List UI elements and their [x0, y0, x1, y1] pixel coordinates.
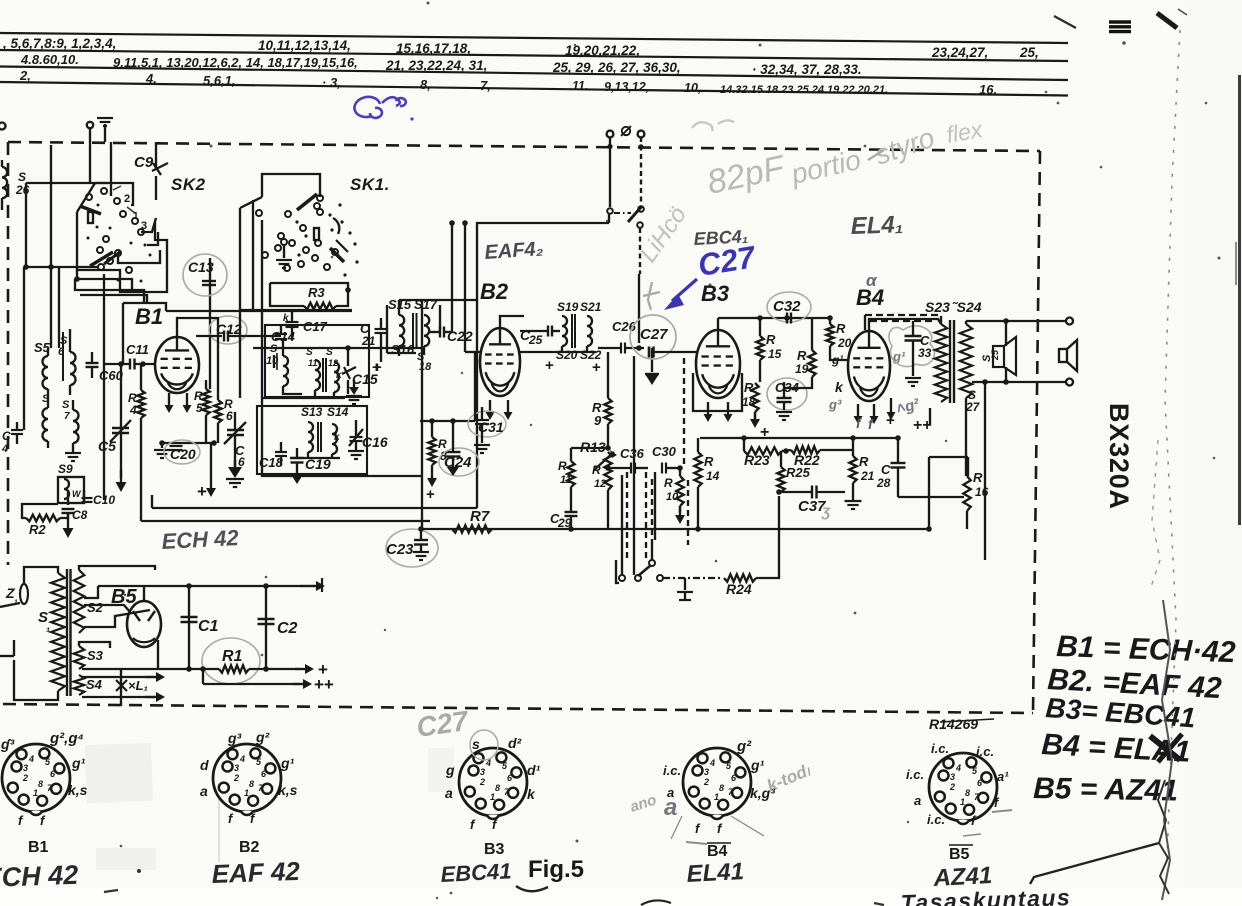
- svg-text:9,13,12,: 9,13,12,: [604, 80, 649, 94]
- svg-text:5: 5: [196, 401, 203, 415]
- svg-text:S14: S14: [327, 405, 349, 419]
- svg-text:20: 20: [837, 336, 852, 350]
- svg-text:15: 15: [768, 347, 782, 361]
- svg-text:15,16,17,18,: 15,16,17,18,: [396, 41, 471, 56]
- ground under C16: [348, 450, 364, 452]
- svg-text:EL4₁: EL4₁: [850, 211, 903, 240]
- svg-text:16.: 16.: [979, 82, 997, 97]
- svg-text:14.32.15.18.23.25.24.19.22.20.: 14.32.15.18.23.25.24.19.22.20.21.: [720, 84, 888, 96]
- svg-text:S13: S13: [301, 405, 323, 419]
- svg-text:g: g: [445, 762, 455, 778]
- svg-text:R: R: [973, 470, 983, 485]
- pencil dash near B5: [992, 810, 1012, 812]
- svg-text:a: a: [914, 793, 921, 808]
- svg-text:4,: 4,: [145, 71, 157, 86]
- svg-text:k: k: [527, 786, 536, 802]
- contact and wiper below SK2: [98, 264, 104, 270]
- svg-text:R25: R25: [786, 465, 811, 480]
- svg-text:i.c.: i.c.: [976, 744, 994, 759]
- svg-text:2: 2: [479, 777, 485, 787]
- wire terminal left down: [609, 137, 611, 207]
- down arrow under C8: [67, 513, 69, 530]
- svg-text:4: 4: [28, 754, 34, 764]
- svg-text:18: 18: [742, 395, 756, 409]
- resistor R16: [963, 476, 970, 511]
- svg-text:8,: 8,: [420, 77, 431, 92]
- crease squiggle lower: [1162, 600, 1172, 900]
- switch SK1 frame: [262, 174, 320, 197]
- svg-text:+: +: [426, 486, 435, 503]
- capacitor C13 with pencil ring: [183, 254, 227, 296]
- wire B5 top: [143, 586, 145, 601]
- svg-text:g³: g³: [227, 730, 242, 746]
- svg-text:27: 27: [965, 400, 981, 414]
- svg-text:1: 1: [714, 792, 719, 802]
- capacitor C10: [82, 497, 93, 499]
- svg-text:i.c.: i.c.: [663, 763, 681, 778]
- svg-text:+: +: [886, 412, 895, 429]
- bus wires lower left: [152, 507, 477, 509]
- svg-text:21, 23,22,24, 31,: 21, 23,22,24, 31,: [385, 58, 487, 73]
- svg-text:S21: S21: [580, 300, 602, 314]
- ground stub under C5: [120, 470, 122, 478]
- capacitor C33 pencil blob: [889, 326, 934, 367]
- svg-text:1: 1: [33, 788, 38, 798]
- svg-text:a: a: [445, 785, 453, 801]
- svg-text:k: k: [336, 370, 342, 381]
- svg-text:C11: C11: [126, 342, 149, 357]
- blue pen squiggle: [354, 97, 405, 118]
- tube B3 box: [693, 373, 742, 411]
- svg-text:3: 3: [950, 772, 955, 782]
- dashed screen box above B4: [865, 314, 939, 316]
- resistor R6: [214, 400, 221, 423]
- svg-text:3: 3: [23, 763, 28, 773]
- output terminal top: [1066, 318, 1073, 325]
- ground under switch wire: [684, 578, 686, 590]
- svg-text:C: C: [881, 462, 891, 477]
- wire taps to B5: [84, 605, 130, 612]
- wire B5 cathode: [157, 640, 159, 669]
- transformer S3: [74, 646, 85, 669]
- wire main coupling: [520, 351, 560, 353]
- wire B2 plate: [500, 316, 524, 328]
- triple bar mark: [1109, 20, 1131, 23]
- svg-text:g²: g²: [255, 729, 270, 745]
- svg-text:1: 1: [960, 797, 965, 807]
- svg-text:C8: C8: [72, 508, 88, 522]
- socket B4: [683, 748, 751, 816]
- svg-text:C20: C20: [170, 446, 196, 462]
- big ground under C6: [234, 460, 236, 469]
- svg-text:R: R: [797, 348, 807, 363]
- svg-text:B2: B2: [480, 279, 509, 304]
- svg-text:25, 29, 26, 27, 36,30,: 25, 29, 26, 27, 36,30,: [552, 60, 681, 75]
- svg-text:R2: R2: [29, 522, 46, 537]
- capacitor C19: [291, 457, 304, 459]
- svg-text:23,24,27,: 23,24,27,: [931, 45, 988, 60]
- svg-text:C10: C10: [93, 493, 115, 507]
- svg-text:EL41: EL41: [686, 858, 745, 888]
- svg-text:S19: S19: [557, 300, 579, 314]
- svg-text:7,: 7,: [480, 78, 491, 93]
- wire R15 junction: [741, 381, 760, 383]
- svg-text:S4: S4: [86, 677, 103, 692]
- top terminals: [607, 131, 614, 138]
- svg-text:i.c.: i.c.: [906, 767, 924, 782]
- table rule 4: [0, 82, 1068, 96]
- svg-text:C: C: [2, 429, 11, 443]
- bottom tone switch: [619, 575, 625, 581]
- coil S26: [2, 167, 7, 198]
- capacitor C1: [188, 586, 190, 669]
- svg-text:++: ++: [314, 675, 334, 694]
- resistor R20: [826, 324, 833, 346]
- lamp L1: [120, 670, 122, 706]
- faint pencil mark top: [692, 120, 734, 131]
- svg-text:+: +: [592, 359, 601, 376]
- transformer S4: [74, 675, 85, 695]
- svg-text:4: 4: [239, 754, 245, 764]
- svg-text:k: k: [283, 313, 289, 324]
- switch blade middle: [614, 212, 631, 214]
- capacitor C2: [265, 586, 267, 669]
- wire secondary bottom: [965, 398, 967, 476]
- bleed-through gray blocks: [85, 743, 153, 803]
- svg-text:d¹: d¹: [527, 762, 541, 778]
- svg-text:4: 4: [1, 443, 8, 455]
- dash-dot to R24: [663, 577, 723, 579]
- coil can box lower: [257, 406, 367, 474]
- svg-text:8: 8: [719, 783, 724, 793]
- heater wires S4: [82, 676, 158, 678]
- tube B5: [127, 601, 161, 647]
- resistor R1 with pencil ring: [202, 638, 260, 684]
- svg-text:+: +: [197, 482, 207, 501]
- svg-text:g¹: g¹: [750, 757, 765, 773]
- capacitor C60: [86, 362, 99, 364]
- svg-text:12: 12: [594, 478, 606, 490]
- svg-text:2: 2: [233, 773, 239, 783]
- socket B5: [929, 753, 997, 821]
- table rule 3: [0, 67, 1068, 81]
- svg-text:s: s: [472, 736, 480, 752]
- svg-text:R: R: [704, 454, 714, 469]
- wire SK2 to C13: [160, 250, 210, 290]
- svg-text:16: 16: [975, 485, 989, 499]
- switch SK1 contacts: [285, 211, 291, 217]
- resistor R2: [26, 515, 60, 522]
- svg-text:S2: S2: [87, 600, 104, 615]
- tube B3: [696, 330, 740, 398]
- svg-text:8: 8: [38, 779, 43, 789]
- pen stroke top right 2: [1157, 13, 1177, 28]
- resistor R8: [428, 437, 435, 465]
- svg-text:d: d: [200, 757, 209, 773]
- dashed enclosure right edge: [1033, 151, 1040, 713]
- capacitor C31: [468, 411, 506, 437]
- ground in SK1: [283, 245, 285, 258]
- shielded lead lower: [639, 228, 641, 274]
- svg-text:a: a: [200, 783, 208, 799]
- socket B2: [213, 744, 281, 812]
- shield dashed box middle: [626, 472, 628, 560]
- svg-text:g³: g³: [828, 397, 842, 412]
- svg-text:B3: B3: [701, 281, 729, 306]
- svg-text:k,s: k,s: [68, 782, 88, 798]
- svg-text:B5: B5: [949, 846, 970, 863]
- svg-text:R24: R24: [726, 581, 752, 597]
- svg-text:ɠ³: ɠ³: [0, 736, 15, 752]
- svg-text:B4: B4: [707, 843, 728, 860]
- resistor R18: [751, 383, 758, 412]
- svg-text:6: 6: [238, 455, 245, 469]
- svg-text:k: k: [334, 432, 340, 443]
- ground arrow under C26/C27 node: [651, 348, 653, 372]
- R2 loop wires: [22, 504, 58, 518]
- switch SK2 outline: [95, 183, 133, 205]
- switch SK2 arm right: [141, 218, 156, 232]
- svg-text:g¹: g¹: [831, 353, 843, 367]
- svg-text:21: 21: [860, 469, 875, 483]
- svg-text:· 3,: · 3,: [322, 75, 341, 90]
- svg-text:R: R: [859, 454, 869, 469]
- staircase wires SK2 to B1: [58, 268, 60, 348]
- main bus y438: [700, 437, 868, 439]
- capacitor C5 variable: [112, 427, 129, 429]
- svg-text:3: 3: [480, 767, 485, 777]
- wire into B2 box: [608, 214, 610, 223]
- svg-text:S: S: [18, 170, 26, 184]
- svg-text:R: R: [836, 321, 846, 336]
- capacitor C16 variable: [350, 436, 363, 438]
- svg-text:4.8.60,10.: 4.8.60,10.: [20, 52, 79, 67]
- wire S2 to top bus: [84, 586, 98, 598]
- paper crease right: [1165, 30, 1180, 860]
- resistor R15: [756, 336, 763, 360]
- svg-text:21: 21: [361, 334, 376, 348]
- ground under C15: [346, 395, 362, 397]
- wire left bus: [26, 182, 108, 184]
- svg-text:8: 8: [495, 783, 500, 793]
- svg-text:3: 3: [141, 220, 147, 232]
- wire B4 grid: [759, 424, 761, 434]
- svg-text:R23: R23: [744, 452, 770, 468]
- svg-text:Fig.5: Fig.5: [528, 856, 584, 883]
- wire B3 plate to top: [717, 318, 719, 330]
- svg-text:2: 2: [22, 773, 28, 783]
- svg-text:2: 2: [124, 193, 130, 205]
- capacitor C37: [811, 486, 813, 499]
- svg-text:B3: B3: [484, 841, 505, 858]
- svg-text:B1: B1: [28, 839, 49, 856]
- svg-text:· 32,34, 37, 28,33.: · 32,34, 37, 28,33.: [752, 62, 862, 77]
- svg-text:10,: 10,: [684, 81, 701, 95]
- IF can box S15-S18: [386, 305, 388, 353]
- svg-text:C36: C36: [620, 446, 645, 461]
- wire SK1 left leads: [252, 200, 254, 310]
- svg-text:˜S24: ˜S24: [952, 299, 982, 315]
- svg-text:BX320A: BX320A: [1104, 403, 1134, 510]
- transformer S2: [74, 570, 85, 633]
- svg-text:33: 33: [918, 346, 932, 360]
- svg-text:ECH 42: ECH 42: [161, 525, 240, 554]
- svg-text:C30: C30: [652, 444, 677, 459]
- pencil dash: [868, 150, 884, 160]
- B2 stage box: [477, 223, 609, 508]
- svg-text:19,20,21,22,: 19,20,21,22,: [565, 43, 640, 58]
- svg-text:S9: S9: [58, 462, 73, 476]
- switch SK2 wipers: [80, 206, 101, 214]
- wires around coil block: [240, 309, 352, 311]
- resistor R22: [791, 446, 820, 453]
- svg-text:R: R: [744, 380, 754, 395]
- resistor R7 on bus: [422, 528, 929, 530]
- svg-text:C17: C17: [303, 319, 328, 334]
- wire top bus drop: [100, 566, 155, 570]
- speaker icon right: [1059, 349, 1067, 362]
- svg-text:10,11,12,13,14,: 10,11,12,13,14,: [258, 38, 351, 53]
- svg-text:8: 8: [965, 788, 970, 798]
- wire B2 down: [474, 352, 476, 421]
- svg-text:11.: 11.: [572, 79, 588, 93]
- output wire lower: [972, 381, 1066, 383]
- resistor R3 box: [269, 283, 271, 295]
- switch SK1 curve: [333, 218, 339, 234]
- ground under S7: [72, 448, 74, 452]
- svg-text:B1 = ECH·42: B1 = ECH·42: [1056, 630, 1237, 669]
- wire R24 to right: [756, 496, 779, 578]
- svg-text:S: S: [62, 399, 70, 411]
- svg-text:C27: C27: [640, 326, 668, 343]
- shield dashes right of C30: [683, 358, 685, 468]
- svg-text:R: R: [766, 332, 776, 347]
- svg-text:25,: 25,: [1019, 45, 1039, 60]
- capacitor C23 with pencil ring: [386, 529, 438, 567]
- svg-text:S23: S23: [925, 299, 950, 315]
- svg-text:25: 25: [990, 349, 1000, 361]
- svg-text:i.c.: i.c.: [927, 812, 945, 827]
- svg-text:1: 1: [490, 792, 495, 802]
- capacitor C8: [62, 508, 75, 510]
- switch SK2 contacts: [86, 194, 92, 200]
- svg-text:g¹: g¹: [280, 755, 295, 771]
- dashed enclosure bottom edge: [3, 704, 1033, 713]
- svg-text:R: R: [558, 459, 567, 473]
- switch SK1 dots: [328, 213, 331, 216]
- svg-text:+: +: [545, 357, 554, 374]
- svg-text:R3: R3: [308, 285, 325, 300]
- svg-text:B4: B4: [856, 285, 884, 310]
- svg-text:k: k: [835, 379, 844, 395]
- svg-text:28: 28: [876, 476, 891, 490]
- capacitor C32 with pencil ring: [767, 292, 811, 322]
- svg-text:7: 7: [64, 411, 70, 422]
- bus mid: [82, 668, 219, 670]
- svg-text:R7: R7: [470, 508, 490, 525]
- svg-text:EAF4₂: EAF4₂: [484, 238, 545, 264]
- bottom right diagonal line: [1030, 843, 1159, 884]
- tube B3 cathode arrows: [707, 402, 709, 416]
- svg-text:R: R: [592, 463, 601, 477]
- svg-text:19: 19: [795, 362, 809, 376]
- svg-text:C23: C23: [386, 541, 414, 558]
- svg-text:9: 9: [594, 413, 602, 428]
- svg-text:g²,g⁴: g²,g⁴: [49, 730, 84, 747]
- svg-text:6: 6: [226, 409, 233, 423]
- svg-text:C2: C2: [277, 620, 298, 637]
- svg-text:1: 1: [244, 788, 249, 798]
- shielded dashed lead: [640, 137, 642, 205]
- svg-text:B1: B1: [135, 304, 163, 329]
- svg-text:a¹: a¹: [997, 769, 1009, 784]
- svg-text:ʒ: ʒ: [821, 503, 831, 520]
- pen stroke top right 1: [1054, 16, 1076, 28]
- pencil tick mark: [648, 282, 652, 310]
- svg-text:SK2: SK2: [171, 175, 206, 194]
- capacitor C6 variable: [227, 429, 244, 431]
- svg-text:8: 8: [249, 779, 254, 789]
- svg-text:d²: d²: [508, 735, 522, 751]
- svg-text:4: 4: [955, 763, 961, 773]
- svg-text:C9: C9: [134, 154, 154, 171]
- ground top left: [104, 124, 106, 142]
- capacitor C20: [162, 442, 214, 444]
- svg-text:C16: C16: [362, 434, 388, 450]
- svg-text:C1: C1: [198, 618, 219, 635]
- svg-text:25: 25: [528, 333, 543, 347]
- svg-text:k,s: k,s: [278, 782, 298, 798]
- svg-text:EAF 42: EAF 42: [211, 856, 301, 889]
- svg-text:g²: g²: [736, 738, 752, 755]
- svg-text:R: R: [664, 476, 673, 490]
- resistor R21: [849, 456, 856, 483]
- dashed enclosure left edge: [7, 142, 10, 565]
- svg-text:, 5,6,7,8:9, 1,2,3,4,: , 5,6,7,8:9, 1,2,3,4,: [2, 36, 116, 51]
- svg-text:4: 4: [709, 758, 715, 768]
- svg-text:i.c.: i.c.: [931, 741, 949, 756]
- resistor R19: [808, 350, 815, 377]
- tube B4 arrows: [857, 404, 859, 418]
- svg-text:3: 3: [704, 767, 709, 777]
- junction dots on dashed border: [607, 144, 612, 149]
- svg-text:4: 4: [129, 403, 137, 417]
- svg-text:26: 26: [15, 183, 30, 197]
- bottom small marks: [137, 869, 141, 873]
- tube B4: [848, 331, 890, 401]
- svg-text:a: a: [664, 794, 677, 821]
- tube B2: [480, 328, 520, 396]
- speaker S25: [993, 346, 1004, 367]
- resistor R5: [202, 389, 209, 415]
- dashed enclosure top edge: [8, 142, 1040, 151]
- svg-text:14: 14: [706, 469, 720, 483]
- capacitor C22: [439, 327, 441, 338]
- svg-text:C5: C5: [98, 438, 116, 454]
- bus lower: [203, 683, 300, 685]
- blue arrow to C27: [672, 279, 697, 301]
- table rule 2: [0, 50, 1068, 61]
- capacitor C28: [891, 462, 906, 464]
- svg-text:5,6,1,: 5,6,1,: [203, 73, 236, 88]
- svg-text:2: 2: [949, 782, 955, 792]
- resistor R4: [137, 390, 144, 418]
- svg-text:EBC41: EBC41: [440, 858, 512, 887]
- resistor R24: [724, 574, 756, 581]
- svg-text:B5 = AZ41: B5 = AZ41: [1033, 772, 1178, 808]
- svg-text:C13: C13: [188, 259, 214, 275]
- wire top verticals: [89, 128, 91, 183]
